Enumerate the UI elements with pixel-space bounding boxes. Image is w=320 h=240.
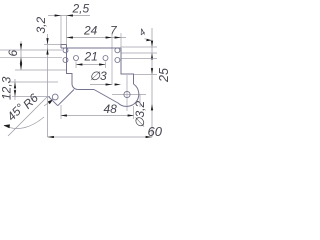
angle 45 arc — [4, 117, 44, 128]
dimension 3,2 line x47.5 — [47, 34, 49, 137]
part outline: diagonal bottom right — [94, 90, 118, 104]
dimension 60 line — [48, 136, 153, 138]
dimension line x152 — [151, 28, 153, 137]
svg-text:6: 6 — [6, 50, 20, 57]
extension y74.5 right — [134, 74, 158, 76]
hole E — [115, 48, 120, 53]
extension of tab top y44.5 — [44, 44, 61, 46]
dimension 12,3 line x15 — [14, 79, 16, 100]
leader arrow R6 — [44, 100, 53, 106]
svg-text:∅3: ∅3 — [90, 69, 107, 83]
hole F — [115, 58, 120, 63]
part outline: V diagonal — [58, 90, 74, 106]
extension y53 right — [121, 52, 157, 54]
extension y47 right — [121, 46, 157, 48]
extension y96.5 left — [12, 96, 50, 98]
svg-text:24: 24 — [83, 24, 98, 38]
bump hole — [124, 91, 130, 97]
extension y70 left — [15, 69, 67, 71]
svg-text:3,2: 3,2 — [34, 16, 48, 33]
small circle at chamfer — [52, 94, 58, 100]
dimension 21 line — [76, 64, 106, 66]
row line 1 left — [0, 49, 62, 51]
dimension 6 line x21 — [20, 41, 22, 70]
dimension 2,5 extension lines — [60, 16, 62, 45]
extension y82 left — [8, 81, 58, 83]
part outline: right side with step — [121, 48, 134, 84]
extension line x121 — [120, 33, 122, 48]
dimension 25 arrows — [151, 68, 153, 74]
bump hole center line vertical — [126, 75, 128, 111]
leader x140 — [139, 94, 141, 107]
svg-text:2,5: 2,5 — [72, 2, 90, 16]
dimension line y84.5 — [90, 84, 112, 86]
dimension 2,5 line — [48, 15, 90, 17]
part outline: chamfer 45 — [49, 97, 58, 106]
part outline: left notch and fillet — [67, 45, 78, 90]
hole A — [63, 48, 68, 53]
part outline: top edge — [61, 47, 121, 49]
svg-text:48: 48 — [104, 102, 118, 116]
dimension 48 line — [61, 115, 135, 117]
hole B — [63, 58, 68, 63]
bump hole center line horizontal — [112, 94, 146, 96]
part outline: bump arc — [118, 84, 139, 106]
svg-text:12,3: 12,3 — [0, 76, 14, 100]
hole D — [103, 56, 108, 61]
dimension 24 line — [67, 37, 113, 39]
svg-text:25: 25 — [157, 68, 170, 83]
part outline: bottom edge middle — [78, 89, 94, 91]
extension y58.5 right — [121, 58, 157, 60]
svg-text:21: 21 — [84, 50, 98, 64]
extension x133.5 down — [133, 106, 135, 119]
extension line x112 — [111, 33, 113, 85]
part outline: tab — [61, 45, 67, 49]
svg-text:60: 60 — [148, 124, 163, 139]
extension x61 down — [60, 105, 62, 119]
hole C — [74, 56, 79, 61]
angle 45 leg — [8, 97, 48, 137]
dimension 7 line — [112, 37, 126, 39]
row line 2 left — [0, 56, 62, 58]
